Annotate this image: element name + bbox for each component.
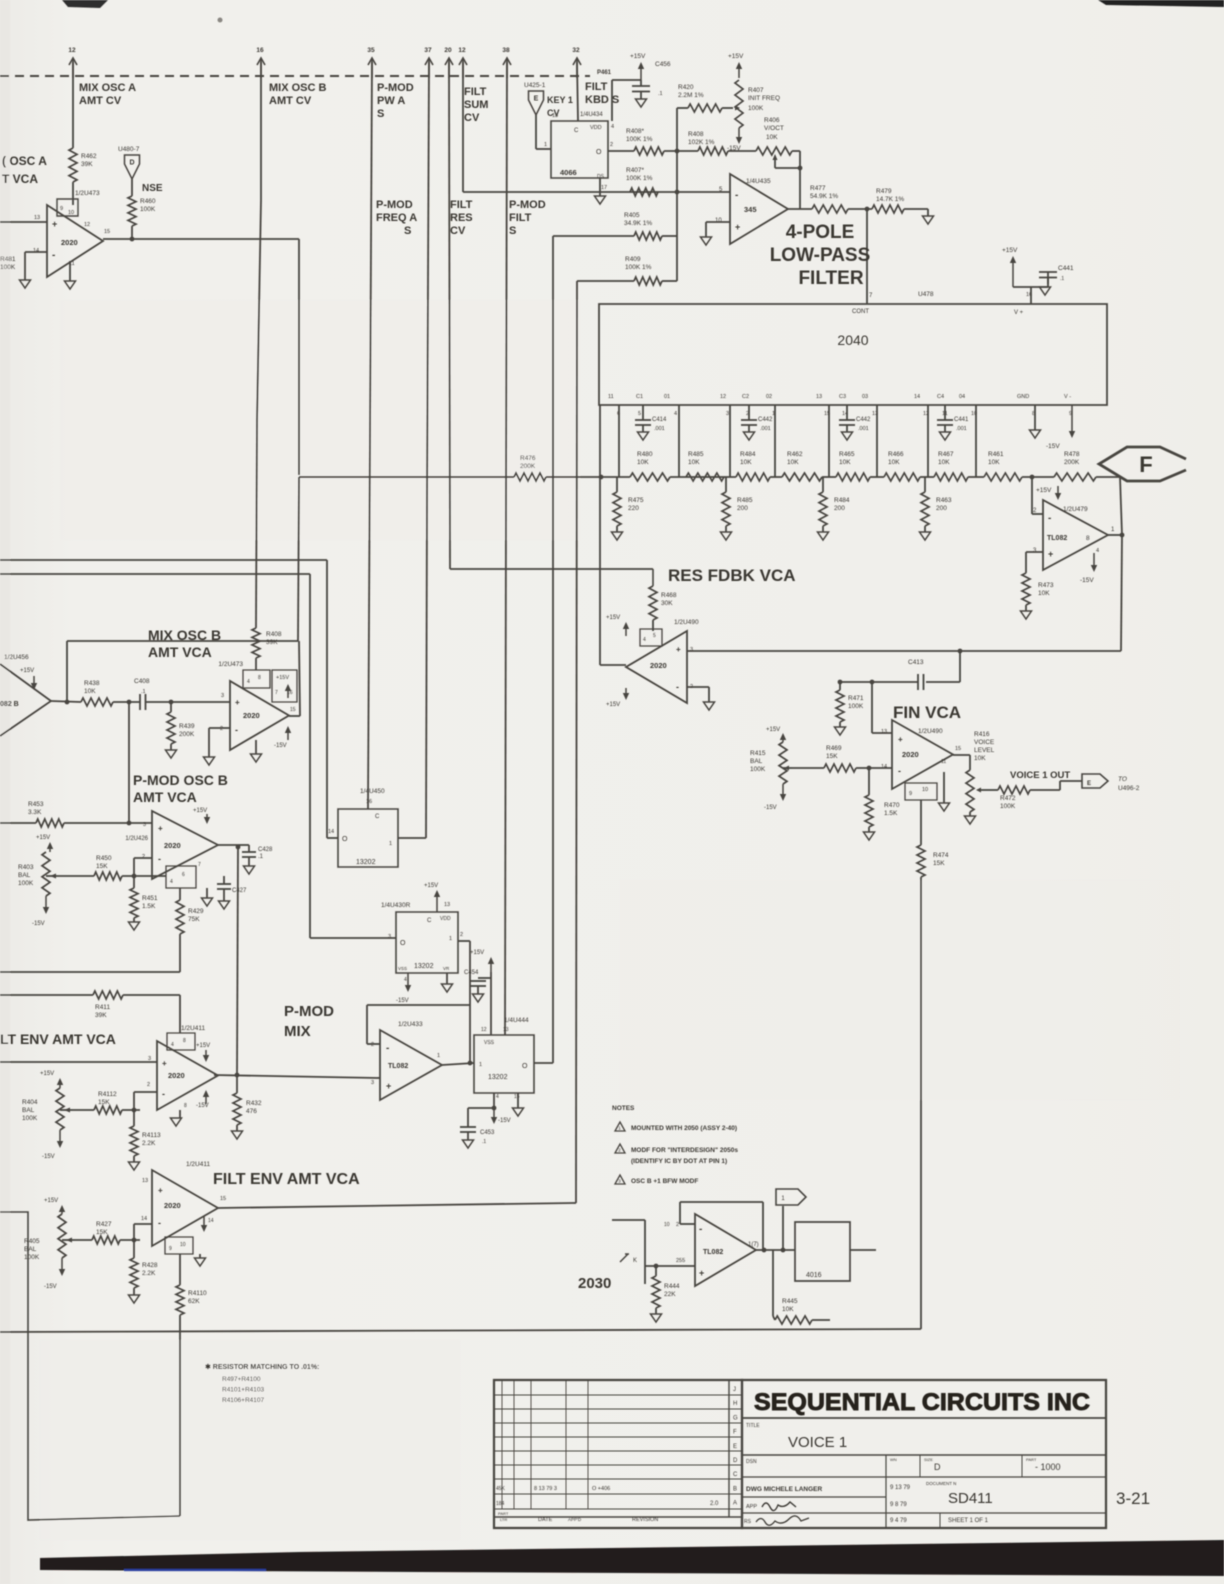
svg-text:FILT ENV AMT VCA: FILT ENV AMT VCA — [213, 1171, 360, 1188]
title block right frame — [742, 1380, 1106, 1528]
svg-text:9 13 79: 9 13 79 — [890, 1485, 911, 1491]
capacitor C427 — [217, 876, 247, 909]
wire node to C413 — [959, 651, 961, 682]
svg-text:TL082: TL082 — [703, 1249, 723, 1256]
svg-text:C442: C442 — [758, 417, 773, 423]
wire OSC A output — [103, 238, 299, 240]
wire bus 12 down — [72, 62, 74, 148]
svg-text:10K: 10K — [637, 459, 649, 466]
wire node p4 — [670, 476, 736, 478]
svg-text:13: 13 — [503, 1027, 509, 1033]
resistor R476 200K — [514, 455, 546, 481]
svg-text:AMT VCA: AMT VCA — [133, 789, 197, 805]
svg-text:H: H — [733, 1401, 737, 1407]
svg-text:P-MOD: P-MOD — [377, 82, 414, 94]
svg-text:54.9K 1%: 54.9K 1% — [810, 193, 838, 200]
svg-text:R479: R479 — [876, 188, 892, 195]
2040 V+ pin16 — [1014, 292, 1032, 316]
node R451 — [122, 874, 166, 879]
svg-text:LTR: LTR — [500, 1517, 507, 1522]
op-amp U411a 2020 — [157, 1025, 218, 1110]
svg-text:VSS: VSS — [484, 1040, 495, 1046]
svg-text:11: 11 — [941, 759, 946, 765]
resistor R4113 2.2K — [129, 1110, 162, 1170]
connector U480-7 D — [118, 146, 140, 179]
label P-MOD MIX — [284, 1003, 334, 1040]
svg-text:1/2U479: 1/2U479 — [1063, 506, 1088, 513]
svg-text:8 13 79 3: 8 13 79 3 — [534, 1486, 557, 1492]
U411b gnd — [195, 1254, 206, 1266]
wire R409 net down — [576, 281, 577, 1203]
svg-text:LT ENV AMT VCA: LT ENV AMT VCA — [0, 1031, 116, 1047]
svg-text:R474: R474 — [933, 852, 949, 859]
capacitor C414 .001 (sect 1) — [635, 405, 667, 440]
label MIX OSC A AMT CV — [79, 82, 136, 107]
node U435 out — [848, 207, 872, 212]
svg-text:-15V: -15V — [727, 145, 741, 152]
svg-text:3: 3 — [371, 1080, 374, 1086]
IC U450 13202 — [338, 809, 398, 867]
svg-text:+: + — [235, 698, 240, 707]
svg-text:3: 3 — [221, 693, 224, 699]
svg-text:AMT CV: AMT CV — [269, 95, 312, 107]
svg-text:.1: .1 — [482, 1139, 486, 1145]
ground stub a U426 — [202, 888, 213, 906]
op-amp U411b 2020 — [152, 1161, 218, 1246]
wire out up to R409 — [573, 1202, 576, 1204]
wire R420 left corner — [677, 108, 688, 151]
svg-text:1/2U411: 1/2U411 — [181, 1025, 205, 1032]
svg-text:R471: R471 — [848, 695, 864, 702]
svg-text:R451: R451 — [142, 895, 158, 902]
svg-text:12: 12 — [84, 222, 90, 228]
svg-text:4016: 4016 — [806, 1272, 822, 1279]
svg-text:1/4U450: 1/4U450 — [360, 788, 385, 795]
svg-text:C: C — [375, 814, 380, 820]
resistor R470 1.5K — [864, 768, 900, 840]
svg-text:10K: 10K — [688, 459, 700, 466]
wire R468 to VCA — [652, 620, 654, 631]
svg-text:15K: 15K — [96, 863, 108, 870]
svg-text:10K: 10K — [740, 459, 752, 466]
svg-text:13: 13 — [816, 394, 822, 400]
U450 pin16 stub — [367, 806, 369, 809]
svg-text:15: 15 — [514, 1094, 520, 1100]
svg-text:R497+R4100: R497+R4100 — [222, 1376, 261, 1383]
svg-text:R484: R484 — [740, 451, 756, 458]
svg-text:1/4U435: 1/4U435 — [746, 178, 771, 185]
svg-text:S: S — [509, 225, 516, 237]
op-amp U490a 2020 (res fdbk) — [626, 619, 699, 703]
resistor R473 10K — [1022, 573, 1054, 605]
U430 power +15V — [424, 883, 440, 912]
blue pen mark — [124, 1569, 266, 1571]
svg-text:R462: R462 — [787, 451, 803, 458]
svg-text:C408: C408 — [134, 678, 150, 685]
svg-text:10K: 10K — [974, 755, 986, 762]
svg-text:13: 13 — [444, 902, 450, 908]
svg-text:D: D — [733, 1458, 738, 1464]
svg-text:+: + — [735, 222, 740, 232]
resistor R466 10K — [884, 451, 920, 481]
svg-text:3: 3 — [690, 647, 693, 653]
capacitor C454 — [464, 950, 494, 1035]
pin 2 output wire — [608, 142, 634, 151]
svg-text:RES: RES — [450, 212, 473, 224]
label 1/2U473a — [75, 190, 100, 197]
wire U411b out long — [218, 1203, 573, 1208]
svg-text:14: 14 — [914, 394, 920, 400]
svg-text:R469: R469 — [826, 745, 842, 752]
svg-text:+15V: +15V — [606, 615, 620, 621]
svg-text:R4101+R4103: R4101+R4103 — [222, 1387, 264, 1394]
U450 labels — [328, 788, 385, 835]
analog switch U434 4066 — [551, 121, 608, 180]
svg-text:R428: R428 — [142, 1262, 158, 1269]
svg-text:TITLE: TITLE — [746, 1423, 760, 1429]
svg-text:BAL: BAL — [18, 872, 31, 879]
svg-text:100K: 100K — [140, 206, 156, 213]
svg-text:9 8 79: 9 8 79 — [890, 1502, 907, 1508]
svg-text:14: 14 — [208, 1218, 214, 1224]
svg-text:R445: R445 — [782, 1298, 798, 1305]
wire bottom long bus — [0, 1329, 921, 1332]
ground under pin 11 — [65, 261, 76, 289]
capacitor C441 — [1031, 265, 1074, 287]
svg-text:1/2U456: 1/2U456 — [4, 654, 29, 661]
wire R474 down bus — [920, 877, 922, 1329]
2030 input stub — [612, 1220, 645, 1284]
svg-text:12: 12 — [458, 47, 466, 54]
wire ladder bus — [299, 476, 514, 478]
svg-text:U478: U478 — [918, 291, 934, 298]
R406 wiper — [773, 154, 778, 168]
svg-text:TL082: TL082 — [388, 1063, 408, 1070]
2040 pin stub 1b — [678, 405, 680, 477]
svg-text:R4106+R4107: R4106+R4107 — [222, 1397, 264, 1404]
svg-text:10K: 10K — [938, 459, 950, 466]
svg-text:04: 04 — [959, 394, 965, 400]
note 1 — [615, 1122, 737, 1132]
svg-text:345: 345 — [744, 205, 757, 214]
U490b pins — [881, 729, 961, 776]
svg-text:22K: 22K — [664, 1291, 676, 1298]
svg-text:+: + — [162, 1059, 167, 1068]
svg-text:2: 2 — [142, 854, 145, 860]
connector E out — [1082, 774, 1108, 788]
pin 1 label 4066 — [544, 142, 547, 148]
svg-text:F: F — [733, 1430, 737, 1436]
svg-text:16: 16 — [256, 47, 264, 54]
svg-text:100K: 100K — [0, 264, 16, 271]
doc number SD411 — [948, 1490, 993, 1507]
wire res fdbk horizontal — [687, 649, 1121, 654]
wire left bus B y574 — [0, 574, 310, 938]
svg-text:BAL: BAL — [750, 758, 763, 765]
wire R478 to F — [1096, 476, 1120, 478]
svg-text:R462: R462 — [81, 153, 97, 160]
wire F feedback vertical — [1120, 477, 1122, 651]
2040 pin stub 1a — [618, 405, 620, 477]
wire 2040 left edge down — [599, 405, 601, 665]
svg-text:-: - — [676, 682, 679, 692]
wire U490a pin2 gnd — [687, 687, 715, 710]
wire to FIN pin13 — [870, 680, 892, 733]
U444 pin4 branch — [491, 1093, 511, 1124]
2040 pin stub 2b — [774, 405, 776, 477]
wire ladder to U479 pin2 — [1032, 477, 1043, 514]
power -15V under R407 — [727, 128, 742, 152]
svg-text:4: 4 — [404, 977, 407, 983]
svg-text:A: A — [733, 1501, 737, 1507]
svg-text:2: 2 — [676, 1222, 679, 1228]
pot R403 BAL 100K — [18, 835, 53, 927]
node sum A — [664, 149, 698, 154]
connector U425-1 E — [524, 82, 546, 115]
svg-text:1: 1 — [479, 1062, 482, 1068]
svg-text:R467: R467 — [938, 451, 954, 458]
svg-text:13202: 13202 — [356, 859, 376, 866]
svg-text:-15V: -15V — [396, 998, 409, 1004]
capacitor C453 — [460, 1108, 495, 1148]
wire gain to R474 — [920, 800, 922, 845]
svg-text:R4113: R4113 — [142, 1132, 161, 1139]
resistor R439 200K — [166, 702, 195, 758]
U430 labels — [381, 902, 450, 940]
svg-text:VDD: VDD — [590, 125, 602, 131]
U479 pin4 -15V — [1080, 548, 1099, 584]
svg-text:-: - — [162, 1089, 165, 1099]
svg-text:10: 10 — [715, 218, 722, 224]
svg-text:+15V: +15V — [470, 950, 484, 956]
op-amp U433 TL082 — [380, 1021, 442, 1100]
svg-text:B: B — [733, 1486, 737, 1492]
node U445 out — [756, 1248, 795, 1253]
label RES FDBK VCA — [668, 566, 796, 585]
svg-text:13: 13 — [34, 215, 40, 221]
svg-text:4066: 4066 — [560, 168, 577, 177]
svg-text:S: S — [377, 108, 384, 120]
wire bus16 to R408 39K — [255, 626, 257, 628]
svg-text:+: + — [386, 1081, 391, 1091]
resistor R444 22K — [651, 1266, 680, 1322]
svg-text:.001: .001 — [858, 426, 869, 432]
svg-text:MIX: MIX — [284, 1023, 311, 1040]
label VOICE 1 OUT — [1010, 770, 1070, 781]
2040 pin stub 3b — [876, 405, 878, 477]
resistor R438 10K — [81, 680, 113, 706]
svg-text:14: 14 — [328, 829, 334, 835]
wire node — [770, 476, 782, 478]
svg-text:02: 02 — [766, 394, 772, 400]
svg-text:C454: C454 — [464, 970, 479, 976]
label FILT RES CV — [450, 199, 473, 237]
svg-text:8: 8 — [183, 1038, 186, 1044]
svg-text:10K: 10K — [839, 459, 851, 466]
svg-text:E: E — [534, 96, 539, 103]
svg-text:-15V: -15V — [498, 1118, 511, 1124]
pot R415 BAL 100K — [750, 727, 787, 811]
svg-text:R484: R484 — [834, 497, 850, 504]
svg-text:C428: C428 — [258, 847, 273, 853]
capacitor C441 .001 (sect 4) — [937, 405, 969, 440]
wire R462 to pin box — [72, 182, 74, 205]
svg-text:2020: 2020 — [168, 1071, 185, 1080]
ground R473 — [1021, 605, 1032, 619]
svg-text:R473: R473 — [1038, 582, 1054, 589]
resistor R462b 10K — [782, 451, 822, 481]
svg-text:RS: RS — [744, 1519, 752, 1525]
svg-text:14: 14 — [33, 248, 39, 254]
svg-text:C453: C453 — [480, 1130, 495, 1136]
wire E to 4066 pin1 — [536, 115, 551, 149]
svg-text:35: 35 — [367, 47, 375, 54]
wire R429 down-left — [0, 934, 180, 972]
svg-text:R439: R439 — [179, 723, 195, 730]
R407 wiper to R420 — [722, 106, 740, 111]
U430 VSS gnd — [398, 966, 453, 992]
svg-text:3: 3 — [388, 934, 391, 940]
svg-text:MODF FOR "INTERDESIGN" 2050s: MODF FOR "INTERDESIGN" 2050s — [631, 1147, 738, 1154]
wire P-MOD FILT row — [463, 191, 730, 193]
notes heading — [612, 1105, 635, 1112]
svg-text:+: + — [676, 645, 681, 654]
svg-text:+15V: +15V — [1036, 487, 1052, 494]
svg-text:3: 3 — [726, 411, 729, 417]
node R428 — [120, 1238, 140, 1243]
svg-text:200K: 200K — [179, 731, 195, 738]
label P-MOD FILT S — [509, 199, 546, 237]
svg-text:2.0: 2.0 — [710, 1501, 719, 1507]
svg-text:+: + — [158, 824, 163, 833]
svg-text:2: 2 — [220, 726, 223, 732]
resistor R4108 102K 1% — [688, 131, 728, 155]
svg-text:2020: 2020 — [243, 711, 260, 720]
svg-text:15K: 15K — [933, 860, 945, 867]
resistor R429 75K — [176, 888, 204, 934]
row RS signature — [744, 1516, 907, 1525]
wire R481 to ground — [24, 252, 26, 280]
pot R405b BAL 100K — [24, 1198, 66, 1290]
svg-text:2040: 2040 — [837, 332, 868, 348]
svg-text:R429: R429 — [188, 908, 204, 915]
logo SEQUENTIAL CIRCUITS INC — [754, 1389, 1090, 1416]
U456 power — [20, 668, 37, 690]
U445 pins — [664, 1222, 759, 1278]
svg-text:C441: C441 — [954, 417, 969, 423]
node C408 left — [113, 700, 140, 705]
svg-text:4: 4 — [1096, 548, 1099, 554]
capacitor C413 — [840, 659, 960, 690]
off-sheet arrow pin 38 at x=507 — [502, 47, 511, 78]
svg-text:D: D — [934, 1462, 941, 1472]
svg-text:9: 9 — [909, 791, 912, 797]
svg-text:- 1000: - 1000 — [1035, 1462, 1061, 1472]
label FIN VCA — [893, 703, 961, 722]
wire R4110 loop — [0, 1212, 180, 1520]
IC 4016 box — [795, 1222, 850, 1281]
svg-text:1/2U473: 1/2U473 — [218, 661, 243, 668]
svg-text:NOTES: NOTES — [612, 1105, 635, 1112]
svg-text:VDD: VDD — [440, 916, 451, 922]
svg-text:S: S — [404, 225, 411, 237]
svg-text:FILT: FILT — [509, 212, 532, 224]
svg-text:R466: R466 — [888, 451, 904, 458]
svg-text:1/2U433: 1/2U433 — [398, 1021, 423, 1028]
wire R408 to gain box — [255, 658, 257, 670]
svg-text:13202: 13202 — [488, 1074, 508, 1081]
svg-text:2: 2 — [371, 1042, 374, 1048]
svg-text:P-MOD: P-MOD — [509, 199, 546, 211]
svg-text:-: - — [386, 1043, 389, 1054]
resistor R461 10K — [984, 451, 1022, 481]
svg-text:2: 2 — [610, 142, 613, 148]
wire pin10 to ground — [701, 222, 731, 245]
U411b gain box — [165, 1237, 193, 1254]
svg-text:C442: C442 — [856, 417, 871, 423]
svg-text:+: + — [158, 1186, 163, 1195]
svg-text:SHEET 1 OF 1: SHEET 1 OF 1 — [948, 1518, 989, 1524]
svg-text:R485: R485 — [688, 451, 704, 458]
svg-text:+15V: +15V — [766, 727, 780, 733]
svg-text:.1: .1 — [658, 91, 663, 97]
wire filter out to apex — [600, 664, 626, 666]
svg-text:5: 5 — [638, 411, 641, 417]
IC U430 13202 — [396, 912, 458, 973]
svg-text:R407*: R407* — [626, 167, 645, 174]
svg-text:200: 200 — [737, 505, 748, 512]
wire to pin2 upper — [134, 1092, 157, 1110]
power +15V C456 — [630, 53, 671, 80]
svg-text:+: + — [699, 1268, 704, 1278]
resistor R445 10K — [773, 1250, 830, 1324]
resistor R477 54.9K 1% — [810, 185, 848, 213]
svg-text:100K 1%: 100K 1% — [626, 175, 653, 182]
resistor R409 100K 1% — [577, 256, 677, 285]
svg-text:R477: R477 — [810, 185, 826, 192]
svg-text:10K: 10K — [782, 1306, 794, 1313]
svg-text:TL082: TL082 — [1047, 535, 1067, 542]
resistor R468 30K — [649, 569, 677, 620]
wire +15V to pin 4 — [612, 80, 641, 121]
svg-text:14.7K 1%: 14.7K 1% — [876, 196, 904, 203]
wire pin3 to R473 — [1026, 552, 1043, 573]
resistor R475 220 to ground — [612, 477, 644, 540]
wire U479 out node — [1108, 533, 1124, 538]
wire node3 — [870, 476, 884, 478]
U450 pin1 wire — [398, 837, 426, 839]
off-sheet arrow pin 12 at x=73 — [68, 47, 77, 78]
svg-text:13: 13 — [552, 113, 558, 119]
svg-text:REVISION: REVISION — [632, 1517, 658, 1523]
wire P-MOD osc b feed — [128, 702, 130, 790]
svg-text:10K: 10K — [888, 459, 900, 466]
svg-text:R480: R480 — [637, 451, 653, 458]
svg-text:AMT CV: AMT CV — [79, 95, 122, 107]
op-amp U473b 2020 — [218, 661, 289, 750]
svg-text:C: C — [427, 918, 432, 924]
label P-MOD OSC B AMT VCA — [133, 772, 228, 805]
IC U444 13202 — [474, 1035, 534, 1093]
svg-text:O: O — [400, 940, 406, 947]
svg-text:DOCUMENT N: DOCUMENT N — [926, 1481, 956, 1486]
svg-text:+15V: +15V — [20, 668, 34, 674]
resistor R471 100K — [835, 680, 864, 735]
svg-text:R405: R405 — [24, 1238, 40, 1245]
wire into U426 pin3 — [90, 821, 152, 826]
svg-text:4: 4 — [171, 1042, 174, 1048]
ground under U473b — [251, 740, 262, 762]
